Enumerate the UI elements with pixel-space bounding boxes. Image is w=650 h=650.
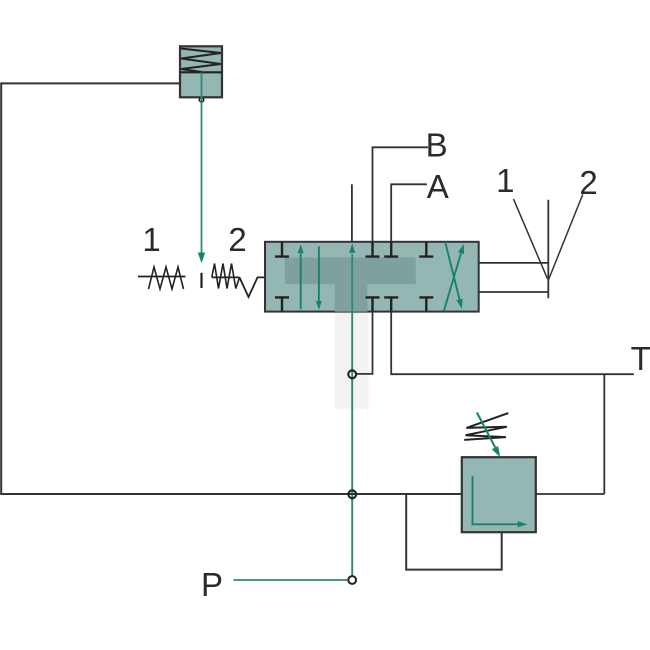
svg-text:1: 1 xyxy=(496,162,514,199)
green up arrow 1 inside valve xyxy=(300,254,302,310)
divider tick line right xyxy=(547,200,549,299)
port mark bottom-right (closed) xyxy=(419,297,433,311)
wire B port to label xyxy=(373,147,429,242)
wire A port to label xyxy=(391,184,427,242)
divider line of pilot valve xyxy=(180,71,222,73)
wire P green xyxy=(234,579,348,581)
port mark top B xyxy=(366,242,380,257)
node circle junction bottom rail xyxy=(348,490,356,498)
wire right port 2 xyxy=(479,291,549,293)
wire B below valve to node xyxy=(357,311,373,374)
spring 1 zigzag xyxy=(149,267,184,289)
inner dark T shape xyxy=(285,258,416,312)
svg-text:2: 2 xyxy=(579,164,597,201)
wire: left frame (top component to bottom rail) xyxy=(1,83,462,494)
stub line above valve at P xyxy=(351,184,353,242)
node circle junction B/T xyxy=(348,370,356,378)
node circle below pilot valve xyxy=(199,98,203,102)
green flow arrow inside block xyxy=(473,476,519,524)
main green P line through valve xyxy=(351,254,353,580)
spring inside pilot valve xyxy=(181,49,221,73)
spring 2 zigzag with link to valve xyxy=(212,276,240,278)
pilot green control line xyxy=(201,73,203,253)
wire: pilot loop under pressure valve xyxy=(406,494,502,570)
wire T branch down to pressure valve xyxy=(603,374,605,494)
port mark top-right (closed) xyxy=(419,242,433,257)
main directional valve body xyxy=(265,242,479,312)
leader line 1 xyxy=(514,199,548,279)
svg-text:T: T xyxy=(631,340,650,377)
wire A below valve to T xyxy=(391,311,634,374)
port mark bottom B xyxy=(366,297,380,311)
watermark band below valve xyxy=(335,312,369,409)
svg-text:2: 2 xyxy=(228,221,246,258)
port mark bottom-left (closed) xyxy=(275,297,289,311)
wire right port 1 xyxy=(479,262,549,264)
link V to valve xyxy=(240,277,266,297)
port mark top-left (closed) xyxy=(275,242,289,257)
svg-text:P: P xyxy=(201,566,223,603)
svg-text:1: 1 xyxy=(142,221,160,258)
spring above pressure valve xyxy=(464,413,508,440)
svg-text:A: A xyxy=(427,168,449,205)
pressure reducing valve block xyxy=(462,457,536,532)
green X arrows in right section xyxy=(444,253,461,310)
spring 1 axis line xyxy=(138,276,186,278)
wire pressure valve right port xyxy=(536,493,605,495)
port mark bottom A xyxy=(384,297,398,311)
arrowhead of pilot line xyxy=(198,253,205,264)
pilot relief valve (top component) xyxy=(180,46,222,97)
node circle P end xyxy=(348,576,356,584)
plunger dash between springs xyxy=(200,273,202,288)
port mark top A xyxy=(384,242,398,257)
leader line 2 xyxy=(549,194,583,279)
svg-text:B: B xyxy=(426,126,448,163)
green adjust arrow xyxy=(477,413,496,449)
green down arrow inside valve xyxy=(318,246,320,301)
